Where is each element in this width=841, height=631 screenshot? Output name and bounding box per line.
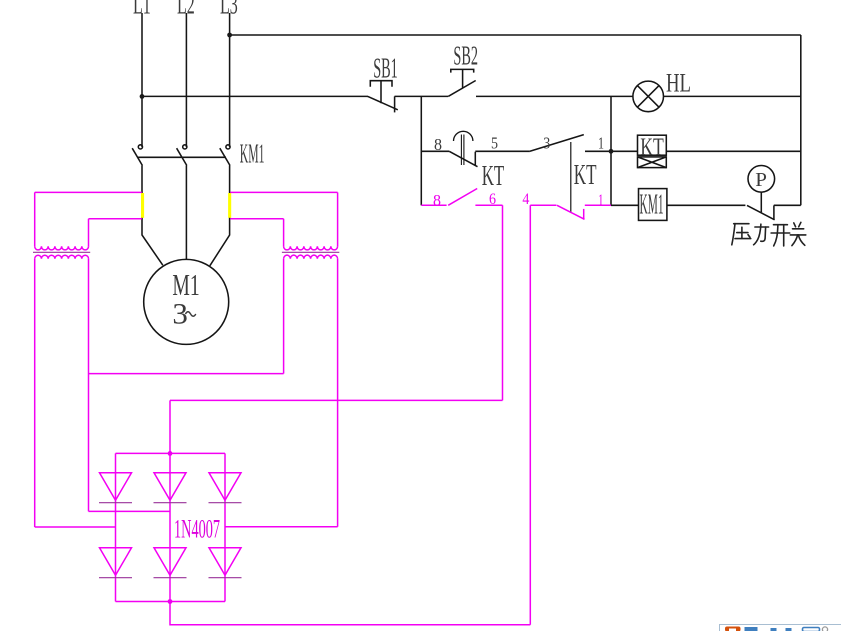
svg-text:6: 6 [489,191,496,208]
svg-text:1: 1 [598,134,604,153]
svg-text:4: 4 [522,191,529,208]
svg-text:KT: KT [482,161,505,192]
svg-text:8: 8 [434,135,442,154]
svg-text:1: 1 [598,192,604,209]
svg-text:KM1: KM1 [640,188,664,220]
svg-text:SB2: SB2 [453,40,478,71]
svg-text:KM1: KM1 [240,138,265,169]
svg-text:L3: L3 [220,0,238,21]
svg-text:HL: HL [666,69,691,98]
svg-text:KT: KT [640,132,664,161]
svg-text:3: 3 [543,134,550,153]
svg-text:SB1: SB1 [373,52,398,84]
svg-text:8: 8 [433,193,441,210]
svg-text:P: P [755,169,767,191]
svg-text:M1: M1 [172,267,199,302]
svg-text:1N4007: 1N4007 [174,515,220,544]
svg-text:KT: KT [574,160,597,191]
svg-text:L1: L1 [133,0,151,21]
svg-text:5: 5 [491,134,498,153]
svg-text:L2: L2 [177,0,195,21]
svg-text:3: 3 [172,299,188,331]
